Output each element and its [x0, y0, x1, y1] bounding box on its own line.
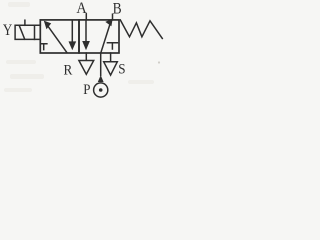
solenoid Y box: [15, 25, 34, 39]
pressure source circle: [94, 83, 108, 97]
svg-text:P: P: [83, 82, 90, 98]
solenoid connector lines: [35, 25, 41, 39]
valve right square: [79, 20, 119, 53]
solenoid diagonal: [19, 26, 24, 40]
background: [0, 0, 165, 100]
arrowhead right diagonal: [105, 19, 112, 27]
exhaust triangle R: [79, 61, 94, 75]
left square flow arrow P to A (diagonal): [48, 26, 67, 53]
svg-text:A: A: [76, 0, 87, 17]
exhaust triangle S: [104, 62, 118, 75]
port B wire: [112, 14, 114, 20]
port R wire: [85, 53, 87, 60]
pressure source inlet triangle: [98, 75, 104, 82]
arrowhead left down arrow: [69, 41, 77, 50]
arrowhead right down arrow: [82, 41, 90, 50]
svg-text:Y: Y: [3, 22, 12, 39]
pressure source dot: [99, 88, 103, 92]
right square blocked port T: [107, 43, 117, 49]
port P wire: [100, 53, 102, 75]
left square blocked port T: [41, 44, 47, 50]
svg-text:B: B: [113, 1, 122, 18]
left square flow arrow B to S (down): [71, 20, 73, 43]
port A wire: [85, 14, 87, 20]
port S wire: [110, 53, 112, 62]
svg-text:R: R: [64, 63, 73, 79]
right square flow arrow A to R (down): [85, 20, 87, 42]
solenoid top tick: [24, 20, 26, 25]
arrowhead left diagonal: [44, 21, 51, 30]
right square flow arrow P to B (diagonal): [101, 23, 111, 53]
spring (return): [120, 20, 162, 39]
svg-text:S: S: [118, 62, 125, 78]
valve left square: [40, 20, 79, 53]
